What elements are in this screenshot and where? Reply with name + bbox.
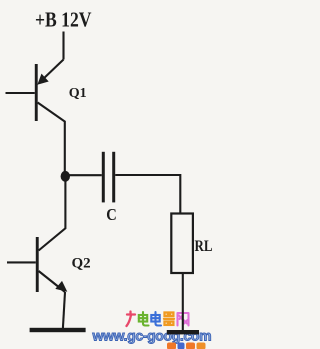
svg-text:RL: RL: [195, 238, 213, 255]
svg-text:C: C: [106, 205, 117, 224]
svg-text:+B 12V: +B 12V: [35, 7, 92, 31]
svg-text:Q1: Q1: [69, 86, 87, 101]
svg-text:Q2: Q2: [72, 256, 91, 272]
svg-text:www.gc-goog.com: www.gc-goog.com: [92, 328, 212, 344]
